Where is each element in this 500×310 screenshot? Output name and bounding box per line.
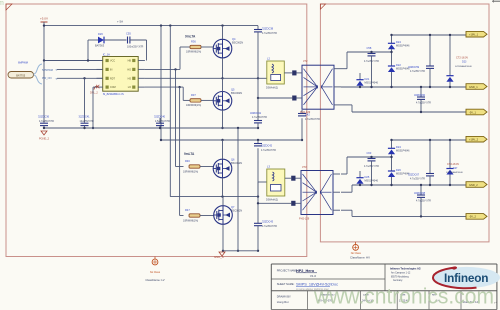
svg-text:Q6: Q6 <box>231 158 235 162</box>
svg-text:85579 Neubiberg: 85579 Neubiberg <box>391 275 409 278</box>
svg-text:-5V_2: -5V_2 <box>469 215 476 219</box>
svg-text:D26: D26 <box>396 168 401 172</box>
svg-text:4.7u/25V/X7R: 4.7u/25V/X7R <box>261 149 276 152</box>
svg-text:Germany: Germany <box>393 279 403 282</box>
svg-text:+18V_1: +18V_1 <box>469 33 479 37</box>
svg-text:3T2: 3T2 <box>303 59 308 63</box>
svg-text:D24: D24 <box>396 40 401 44</box>
svg-text:10u/25V/X7R: 10u/25V/X7R <box>80 120 94 123</box>
svg-text:4.7u/25V/X7R: 4.7u/25V/X7R <box>262 32 277 35</box>
svg-text:No Class: No Class <box>150 271 161 274</box>
svg-text:PROJECT NAME:: PROJECT NAME: <box>277 269 298 273</box>
svg-text:4.7u/25V X7R: 4.7u/25V X7R <box>364 60 379 63</box>
svg-text:RDT: RDT <box>110 77 115 80</box>
svg-text:DNL_2: DNL_2 <box>90 92 98 95</box>
svg-text:10R/MINI(1%): 10R/MINI(1%) <box>183 171 198 174</box>
svg-text:BSC062N: BSC062N <box>231 92 242 95</box>
svg-text:9mLTA: 9mLTA <box>184 152 195 156</box>
svg-text:www.cntronics.com: www.cntronics.com <box>313 284 494 309</box>
svg-text:D22: D22 <box>396 63 401 67</box>
svg-text:32ZDC68: 32ZDC68 <box>414 191 426 195</box>
svg-text:DRAWN BY:: DRAWN BY: <box>277 295 292 299</box>
svg-text:HS: HS <box>128 77 132 80</box>
svg-text:GND_2: GND_2 <box>469 183 478 187</box>
svg-text:10R/MINI(1%): 10R/MINI(1%) <box>186 51 201 54</box>
svg-text:D25: D25 <box>365 175 370 179</box>
svg-text:IC_1A: IC_1A <box>103 53 110 57</box>
svg-text:4.7u/25V/X7R: 4.7u/25V/X7R <box>305 118 320 121</box>
svg-text:GND_1: GND_1 <box>469 85 478 89</box>
svg-text:4.7u/25V/X7R: 4.7u/25V/X7R <box>39 120 54 123</box>
svg-text:«: « <box>56 77 58 81</box>
svg-text:10R/MINI(1%): 10R/MINI(1%) <box>186 104 201 107</box>
svg-text:32ZDC41: 32ZDC41 <box>79 115 91 119</box>
svg-text:VCC: VCC <box>110 60 115 63</box>
svg-text:5V5PWM: 5V5PWM <box>42 68 53 72</box>
svg-text:D21: D21 <box>365 77 370 81</box>
svg-text:32ZDC42: 32ZDC42 <box>261 144 273 148</box>
svg-text:32ZDC60: 32ZDC60 <box>414 93 426 97</box>
svg-text:D24: D24 <box>396 145 401 149</box>
svg-text:32ZDC67: 32ZDC67 <box>408 173 420 177</box>
svg-text:+ 5A: + 5A <box>117 19 123 23</box>
svg-text:MSS1P4046: MSS1P4046 <box>365 82 379 85</box>
svg-text:IN: IN <box>110 69 113 72</box>
svg-text:4.7u/25V/X7R: 4.7u/25V/X7R <box>262 225 277 228</box>
svg-text:10R/MINI(1%): 10R/MINI(1%) <box>183 220 198 223</box>
svg-text:«: « <box>56 68 58 72</box>
svg-text:9mLTA: 9mLTA <box>185 35 196 39</box>
svg-text:4.7u/25V X7R: 4.7u/25V X7R <box>416 102 431 105</box>
svg-text:3T3: 3T3 <box>302 165 307 169</box>
svg-text:D27: D27 <box>453 167 458 170</box>
svg-text:PW_ON: PW_ON <box>42 76 52 80</box>
svg-text:C58: C58 <box>367 46 372 50</box>
svg-text:6MPWM: 6MPWM <box>18 61 28 65</box>
svg-text:SZ2SMAHP4046: SZ2SMAHP4046 <box>455 65 472 68</box>
svg-text:PGND_2: PGND_2 <box>39 138 50 141</box>
svg-text:↵: ↵ <box>494 301 497 305</box>
svg-text:4.7u/25V X7R: 4.7u/25V X7R <box>410 70 425 73</box>
svg-text:HP2_Hero: HP2_Hero <box>296 269 315 273</box>
svg-text:C63: C63 <box>367 151 372 155</box>
svg-text:4.7u/25V X7R: 4.7u/25V X7R <box>410 178 425 181</box>
svg-text:MSS1P4046: MSS1P4046 <box>365 180 379 183</box>
svg-text:C55: C55 <box>126 32 131 36</box>
svg-text:D23: D23 <box>462 61 467 64</box>
svg-text:100n/25V X7R: 100n/25V X7R <box>127 46 143 49</box>
svg-text:32ZDC59: 32ZDC59 <box>408 65 420 69</box>
svg-text:4.7u/25V X7R: 4.7u/25V X7R <box>364 165 379 168</box>
svg-text:Q7: Q7 <box>231 205 235 209</box>
svg-text:SI_8230ABD-C-IS: SI_8230ABD-C-IS <box>103 92 124 96</box>
svg-text:MSS1P4046: MSS1P4046 <box>396 45 410 48</box>
svg-text:BSC062N: BSC062N <box>231 162 242 165</box>
svg-text:CT2-18.0V: CT2-18.0V <box>456 57 468 60</box>
svg-text:ClassName: LV: ClassName: LV <box>145 278 164 282</box>
svg-text:HB: HB <box>128 60 132 63</box>
svg-text:Am Campeon 1-12: Am Campeon 1-12 <box>391 272 411 275</box>
svg-text:CT3-18.0V: CT3-18.0V <box>447 163 459 166</box>
svg-text:DS64nH(2): DS64nH(2) <box>266 87 278 90</box>
svg-text:PH2-129: PH2-129 <box>300 110 311 114</box>
svg-text:m: m <box>0 0 4 7</box>
svg-text:BSC062N: BSC062N <box>231 210 242 213</box>
svg-text:R37: R37 <box>191 93 196 97</box>
svg-text:-5V_1: -5V_1 <box>469 110 476 114</box>
svg-text:COM: COM <box>110 86 116 89</box>
svg-text:BSC062N: BSC062N <box>232 42 243 45</box>
svg-text:R36: R36 <box>191 40 196 44</box>
svg-text:R47: R47 <box>185 208 190 212</box>
svg-text:+18V_2: +18V_2 <box>469 138 479 142</box>
svg-text:BAT363: BAT363 <box>95 44 105 48</box>
svg-text:ClassName: HV: ClassName: HV <box>350 255 370 259</box>
svg-text:SZ2SMAHP4046: SZ2SMAHP4046 <box>446 171 463 174</box>
svg-text:Hong Rui: Hong Rui <box>277 300 289 304</box>
svg-text:32ZDC38: 32ZDC38 <box>262 27 274 31</box>
svg-text:Infineon Technologies AG: Infineon Technologies AG <box>390 268 421 271</box>
svg-text:MSS1P4046: MSS1P4046 <box>396 150 410 153</box>
svg-text:DS64nH(2): DS64nH(2) <box>266 199 278 202</box>
svg-text:32ZDC40: 32ZDC40 <box>154 115 166 119</box>
svg-text:PH2-129: PH2-129 <box>299 217 310 221</box>
svg-text:4.5u/25V/X7R: 4.5u/25V/X7R <box>155 120 170 123</box>
svg-text:32ZDC41: 32ZDC41 <box>250 111 262 115</box>
svg-text:Q4: Q4 <box>232 37 236 41</box>
svg-text:V1.0: V1.0 <box>310 274 317 278</box>
svg-text:SHEET NAME:: SHEET NAME: <box>277 282 295 286</box>
svg-text:LO: LO <box>128 86 131 89</box>
svg-text:32ZDC43: 32ZDC43 <box>262 220 274 224</box>
svg-text:4.7u/25V X7R: 4.7u/25V X7R <box>416 200 431 203</box>
svg-text:D26: D26 <box>98 32 103 36</box>
svg-text:HO: HO <box>127 69 131 72</box>
svg-text:R46: R46 <box>185 159 190 163</box>
svg-text:4.7u/25V/X7R: 4.7u/25V/X7R <box>252 116 267 119</box>
svg-text:Q5: Q5 <box>231 88 235 92</box>
svg-text:32ZDC36: 32ZDC36 <box>38 115 50 119</box>
svg-text:BATT05: BATT05 <box>16 74 26 77</box>
svg-text:+5.0V: +5.0V <box>40 17 48 21</box>
